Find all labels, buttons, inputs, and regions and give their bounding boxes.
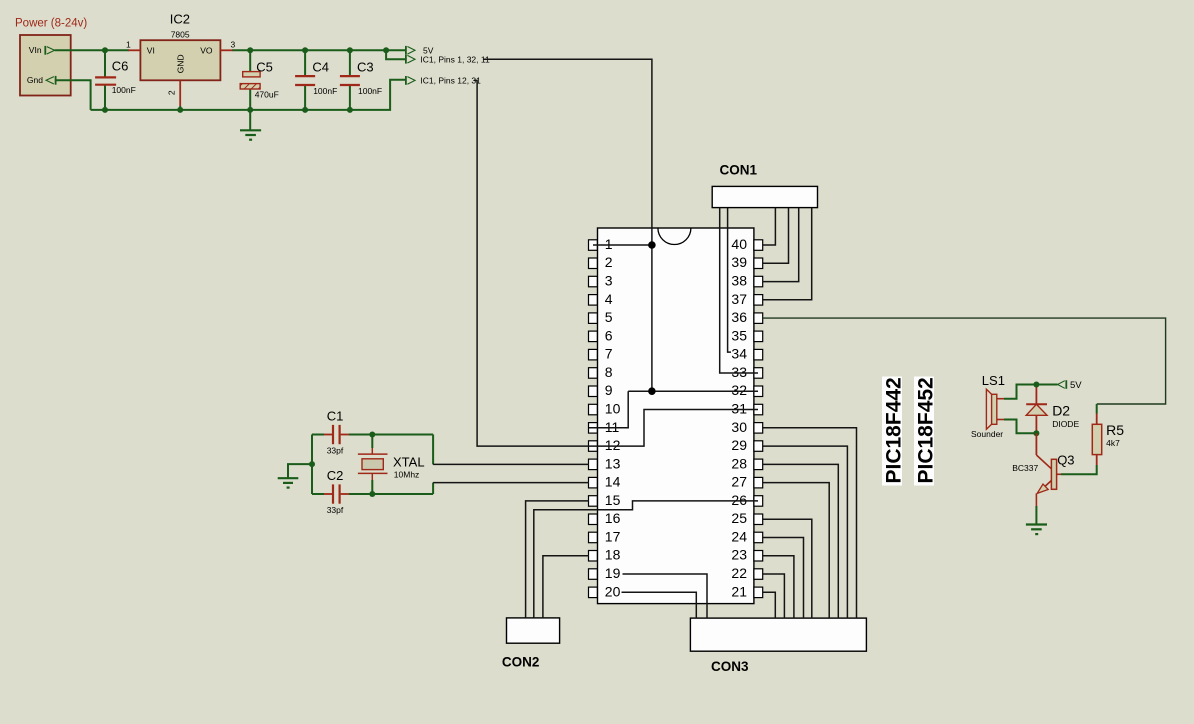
wire net VSS label to pin12/pin31 bbox=[474, 80, 758, 446]
svg-text:33pf: 33pf bbox=[327, 446, 344, 456]
wire Q3 emitter to ground bbox=[1035, 506, 1037, 525]
wire pin 25 to CON3 bbox=[763, 519, 812, 618]
svg-text:4k7: 4k7 bbox=[1106, 438, 1120, 448]
connector CON1 bbox=[712, 186, 817, 207]
svg-text:11: 11 bbox=[605, 419, 620, 435]
svg-text:C5: C5 bbox=[256, 60, 273, 75]
svg-text:Power (8-24v): Power (8-24v) bbox=[15, 18, 87, 30]
wire CON1 stub near pin 34 bbox=[728, 208, 731, 353]
svg-text:1: 1 bbox=[126, 40, 131, 50]
svg-text:8: 8 bbox=[605, 364, 613, 380]
terminal arrow 5V bbox=[406, 45, 434, 55]
svg-text:PIC18F452: PIC18F452 bbox=[915, 377, 938, 483]
crystal XTAL 10Mhz bbox=[358, 435, 425, 495]
svg-text:32: 32 bbox=[731, 382, 747, 398]
svg-text:9: 9 bbox=[605, 382, 613, 398]
wire pin 26 to CON2 bbox=[534, 501, 758, 618]
svg-text:7805: 7805 bbox=[171, 29, 190, 39]
svg-text:3: 3 bbox=[605, 273, 613, 289]
IC U1 PIC18F442 body bbox=[598, 228, 754, 604]
svg-text:35: 35 bbox=[731, 327, 747, 343]
svg-text:27: 27 bbox=[731, 474, 747, 490]
wire xtal to pin 13 bbox=[433, 435, 589, 465]
svg-text:C2: C2 bbox=[327, 468, 344, 483]
svg-text:10Mhz: 10Mhz bbox=[394, 470, 420, 480]
diode D2 bbox=[1026, 385, 1079, 434]
wire pin 28 to CON3 bbox=[763, 464, 838, 618]
svg-text:5V: 5V bbox=[1070, 380, 1082, 391]
svg-text:6: 6 bbox=[605, 327, 613, 343]
wire Q3 collector to R5 bbox=[1061, 465, 1097, 474]
svg-text:4: 4 bbox=[605, 291, 613, 307]
svg-text:CON1: CON1 bbox=[720, 163, 758, 178]
connector CON2 bbox=[507, 618, 560, 643]
svg-text:26: 26 bbox=[731, 492, 747, 508]
svg-text:VI: VI bbox=[147, 45, 155, 55]
svg-text:5: 5 bbox=[605, 309, 613, 325]
svg-text:23: 23 bbox=[731, 547, 747, 563]
U1 pin numbers 1-20 bbox=[605, 236, 621, 599]
svg-text:12: 12 bbox=[605, 437, 621, 453]
transistor Q3 BC337 bbox=[1012, 433, 1074, 506]
svg-text:13: 13 bbox=[605, 455, 621, 471]
svg-text:IC1, Pins 1, 32, 11: IC1, Pins 1, 32, 11 bbox=[420, 54, 490, 64]
junction pin 9/32 row bbox=[648, 387, 656, 395]
svg-text:C3: C3 bbox=[357, 60, 374, 75]
svg-text:IC2: IC2 bbox=[170, 12, 190, 27]
svg-text:40: 40 bbox=[731, 236, 747, 252]
ground symbol below C5 bbox=[240, 130, 261, 139]
terminal arrow IC1, Pins 1, 32, 11 bbox=[406, 54, 490, 64]
junction pin 1 bbox=[648, 241, 656, 249]
svg-text:IC1, Pins 12, 31: IC1, Pins 12, 31 bbox=[420, 76, 481, 86]
wire C1-C2 left vertical bbox=[311, 435, 313, 495]
wire pin 15 to CON2 bbox=[526, 501, 589, 618]
svg-text:33: 33 bbox=[731, 364, 747, 380]
svg-text:34: 34 bbox=[731, 346, 747, 362]
wire LS1 top to 5V bbox=[1004, 385, 1058, 399]
svg-text:XTAL: XTAL bbox=[393, 455, 425, 470]
svg-text:14: 14 bbox=[605, 474, 621, 490]
wire pin 21 to CON3 bbox=[763, 592, 775, 618]
svg-text:C1: C1 bbox=[327, 409, 344, 424]
IC2 pin 2 GND stub bbox=[179, 80, 181, 106]
capacitor C1 33pf bbox=[312, 409, 433, 456]
svg-text:7: 7 bbox=[605, 346, 613, 362]
svg-text:LS1: LS1 bbox=[982, 373, 1005, 388]
U1 pin squares left bbox=[589, 240, 598, 598]
svg-text:VIn: VIn bbox=[29, 45, 42, 55]
wire Vin to 7805 VI bbox=[55, 49, 129, 51]
wire LS1 bottom to D2 bbox=[1004, 420, 1036, 434]
wire elbow to IC1 power label bbox=[386, 50, 406, 59]
U1 notch bbox=[658, 228, 691, 245]
capacitor C6 bbox=[95, 50, 136, 110]
part label PIC18F452 bbox=[914, 377, 938, 486]
svg-text:21: 21 bbox=[731, 583, 747, 599]
svg-text:36: 36 bbox=[731, 309, 747, 325]
svg-text:19: 19 bbox=[605, 565, 621, 581]
wire pin 30 to CON3 bbox=[763, 428, 857, 618]
svg-text:R5: R5 bbox=[1106, 422, 1124, 438]
svg-text:28: 28 bbox=[731, 455, 747, 471]
capacitor C5 470uF bbox=[240, 50, 279, 130]
svg-text:37: 37 bbox=[731, 291, 747, 307]
svg-text:100nF: 100nF bbox=[112, 85, 136, 95]
speaker LS1 bbox=[971, 373, 1005, 439]
ground symbol Q3 bbox=[1026, 525, 1047, 535]
terminal 5V right bbox=[1058, 380, 1083, 391]
svg-text:30: 30 bbox=[731, 419, 747, 435]
svg-text:29: 29 bbox=[731, 437, 747, 453]
svg-text:D2: D2 bbox=[1052, 403, 1070, 419]
svg-text:470uF: 470uF bbox=[255, 90, 279, 100]
svg-text:C6: C6 bbox=[112, 59, 129, 74]
wire pin 24 to CON3 bbox=[763, 538, 804, 619]
svg-text:25: 25 bbox=[731, 510, 747, 526]
svg-text:31: 31 bbox=[731, 401, 747, 417]
svg-text:GND: GND bbox=[175, 54, 185, 73]
svg-text:2: 2 bbox=[605, 254, 613, 270]
wire pin 29 to CON3 bbox=[763, 446, 848, 618]
svg-text:20: 20 bbox=[605, 583, 621, 599]
wire pin 18 to CON2 bbox=[543, 556, 589, 618]
svg-text:1: 1 bbox=[605, 236, 613, 252]
svg-text:10: 10 bbox=[605, 401, 621, 417]
svg-text:33pf: 33pf bbox=[327, 505, 344, 515]
capacitor C4 100nF bbox=[295, 50, 337, 110]
U1 pin squares right bbox=[754, 240, 763, 598]
ground rail wire bbox=[91, 80, 406, 110]
svg-text:VO: VO bbox=[200, 45, 213, 55]
svg-text:38: 38 bbox=[731, 273, 747, 289]
wires CON1 to pins 40,39,38,37 bbox=[763, 208, 776, 245]
svg-text:17: 17 bbox=[605, 528, 621, 544]
terminal arrow IC1, Pins 12, 31 bbox=[406, 76, 481, 86]
svg-text:Gnd: Gnd bbox=[27, 75, 43, 85]
svg-text:24: 24 bbox=[731, 528, 747, 544]
wire pin 20 to CON3 bbox=[622, 592, 697, 618]
svg-text:15: 15 bbox=[605, 492, 621, 508]
svg-text:39: 39 bbox=[731, 254, 747, 270]
svg-text:16: 16 bbox=[605, 510, 621, 526]
5V rail wire bbox=[232, 49, 406, 51]
part label PIC18F442 bbox=[882, 377, 906, 486]
capacitor C2 33pf bbox=[312, 468, 433, 515]
terminal Gnd bbox=[27, 75, 56, 85]
wire pin 22 to CON3 bbox=[763, 574, 785, 618]
svg-text:Q3: Q3 bbox=[1057, 453, 1074, 468]
svg-text:C4: C4 bbox=[312, 60, 329, 75]
IC2 pin 3 stub bbox=[220, 49, 232, 51]
svg-text:18: 18 bbox=[605, 547, 621, 563]
wire pin 36 to R5 bbox=[763, 318, 1166, 404]
wire net VDD label to pin1/pin32/pin11 bbox=[483, 59, 758, 428]
ground symbol xtal bbox=[278, 478, 299, 487]
terminal Vin bbox=[29, 45, 55, 55]
power connector J1 box bbox=[20, 35, 71, 96]
regulator IC2 7805 bbox=[126, 12, 236, 110]
svg-text:2: 2 bbox=[167, 90, 177, 95]
IC2 pin 1 stub bbox=[128, 49, 140, 51]
svg-text:22: 22 bbox=[731, 565, 747, 581]
wire CON1 to pin 33 bbox=[720, 208, 758, 373]
U1 pin numbers 21-40 bbox=[731, 236, 747, 599]
connector CON3 bbox=[690, 618, 866, 651]
junction dots power rails bbox=[102, 47, 108, 53]
svg-text:3: 3 bbox=[231, 40, 236, 50]
resistor R5 4k7 bbox=[1092, 404, 1124, 465]
svg-text:PIC18F442: PIC18F442 bbox=[883, 377, 906, 483]
wire to xtal ground bbox=[288, 464, 312, 478]
wire Gnd to ground rail bbox=[56, 80, 91, 110]
wire pin 27 to CON3 bbox=[763, 483, 829, 618]
svg-text:CON3: CON3 bbox=[711, 659, 749, 674]
svg-text:Sounder: Sounder bbox=[971, 429, 1003, 439]
svg-text:100nF: 100nF bbox=[313, 86, 337, 96]
svg-text:BC337: BC337 bbox=[1012, 463, 1038, 473]
svg-text:100nF: 100nF bbox=[358, 86, 382, 96]
junction dots xtal bbox=[369, 432, 375, 438]
svg-text:DIODE: DIODE bbox=[1052, 419, 1079, 429]
wire xtal to pin 14 bbox=[433, 483, 589, 494]
junction dots LS1/D2 bbox=[1033, 382, 1039, 388]
wire pin 23 to CON3 bbox=[763, 556, 794, 618]
capacitor C3 100nF bbox=[340, 50, 382, 110]
wire pin 19 to CON3 bbox=[623, 574, 708, 618]
svg-text:CON2: CON2 bbox=[502, 655, 540, 670]
